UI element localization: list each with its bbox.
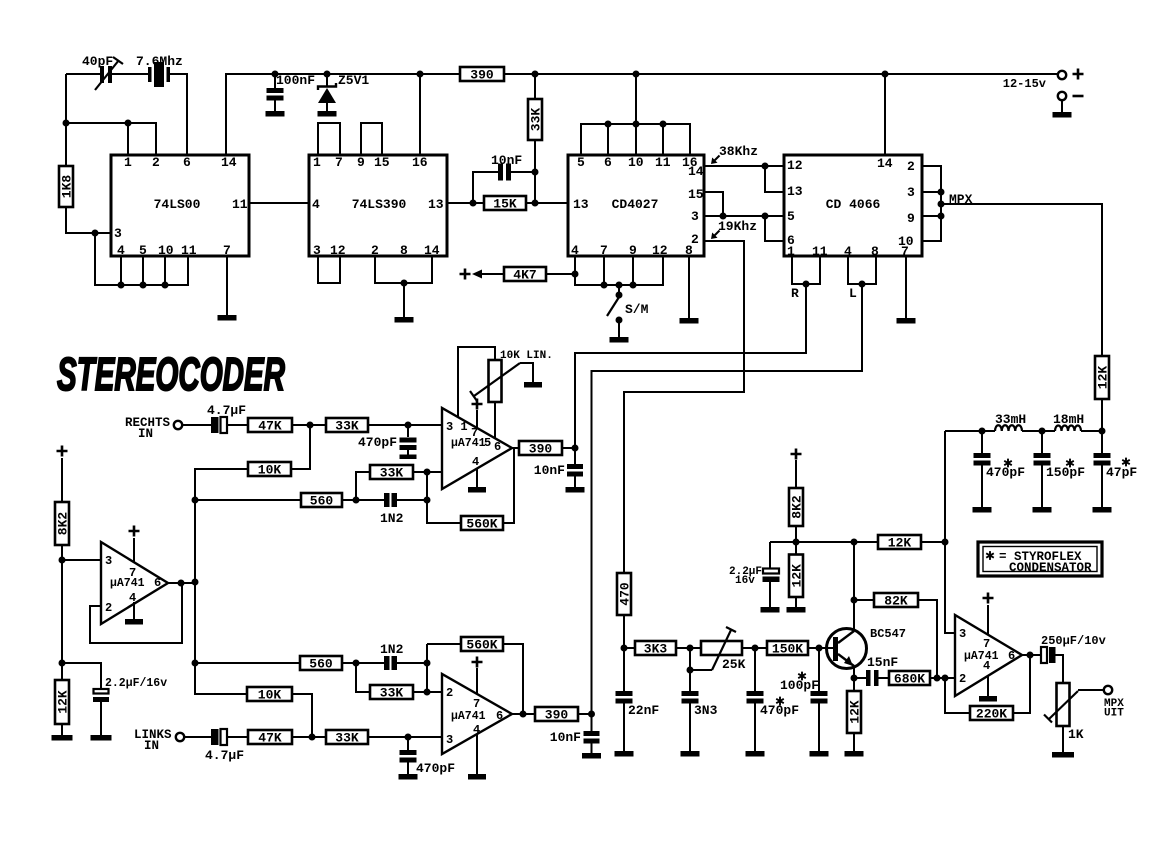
svg-text:100nF: 100nF bbox=[276, 73, 315, 88]
svg-text:16: 16 bbox=[412, 155, 428, 170]
svg-text:11: 11 bbox=[232, 197, 248, 212]
svg-text:9: 9 bbox=[907, 211, 915, 226]
svg-text:33K: 33K bbox=[380, 686, 404, 701]
svg-text:7: 7 bbox=[473, 697, 480, 711]
svg-text:2: 2 bbox=[691, 232, 699, 247]
svg-text:15: 15 bbox=[374, 155, 390, 170]
svg-text:33K: 33K bbox=[380, 466, 404, 481]
svg-text:7: 7 bbox=[600, 243, 608, 258]
svg-text:33K: 33K bbox=[335, 419, 359, 434]
svg-text:12: 12 bbox=[652, 243, 668, 258]
svg-text:11: 11 bbox=[655, 155, 671, 170]
svg-text:12: 12 bbox=[787, 158, 803, 173]
svg-text:R: R bbox=[791, 286, 799, 301]
svg-text:13: 13 bbox=[573, 197, 589, 212]
svg-text:13: 13 bbox=[787, 184, 803, 199]
svg-text:680K: 680K bbox=[894, 672, 925, 687]
svg-text:3K3: 3K3 bbox=[644, 642, 668, 657]
svg-text:3: 3 bbox=[105, 554, 112, 568]
svg-text:µA741: µA741 bbox=[110, 577, 145, 590]
svg-text:10: 10 bbox=[158, 243, 174, 258]
svg-text:22nF: 22nF bbox=[628, 703, 659, 718]
svg-text:390: 390 bbox=[545, 708, 569, 723]
svg-text:33mH: 33mH bbox=[995, 412, 1026, 427]
svg-text:14: 14 bbox=[424, 243, 440, 258]
svg-text:8: 8 bbox=[400, 243, 408, 258]
svg-text:5: 5 bbox=[577, 155, 585, 170]
svg-text:µA741: µA741 bbox=[964, 650, 999, 663]
svg-text:13: 13 bbox=[428, 197, 444, 212]
svg-text:4: 4 bbox=[117, 243, 125, 258]
svg-text:10nF: 10nF bbox=[491, 153, 522, 168]
svg-text:10K: 10K bbox=[258, 463, 282, 478]
svg-text:390: 390 bbox=[529, 442, 553, 457]
svg-text:IN: IN bbox=[138, 427, 153, 441]
svg-text:1K: 1K bbox=[1068, 727, 1084, 742]
svg-text:CONDENSATOR: CONDENSATOR bbox=[1009, 561, 1092, 575]
svg-text:6: 6 bbox=[183, 155, 191, 170]
svg-text:4.7µF: 4.7µF bbox=[205, 748, 244, 763]
svg-text:40pF: 40pF bbox=[82, 54, 113, 69]
svg-text:150K: 150K bbox=[772, 642, 803, 657]
svg-text:470pF: 470pF bbox=[358, 435, 397, 450]
svg-text:3: 3 bbox=[446, 733, 453, 747]
svg-text:14: 14 bbox=[688, 164, 704, 179]
svg-text:6: 6 bbox=[154, 576, 161, 590]
svg-text:8K2: 8K2 bbox=[56, 512, 71, 536]
svg-text:Z5V1: Z5V1 bbox=[338, 73, 369, 88]
svg-text:1N2: 1N2 bbox=[380, 642, 404, 657]
svg-text:18mH: 18mH bbox=[1053, 412, 1084, 427]
svg-text:560: 560 bbox=[309, 657, 333, 672]
svg-text:2: 2 bbox=[105, 601, 112, 615]
svg-text:4: 4 bbox=[312, 197, 320, 212]
svg-text:10: 10 bbox=[628, 155, 644, 170]
svg-text:BC547: BC547 bbox=[870, 627, 906, 641]
svg-text:9: 9 bbox=[629, 243, 637, 258]
svg-text:74LS00: 74LS00 bbox=[154, 197, 201, 212]
svg-text:560K: 560K bbox=[466, 638, 497, 653]
svg-text:150pF: 150pF bbox=[1046, 465, 1085, 480]
svg-text:4K7: 4K7 bbox=[513, 268, 536, 283]
svg-text:3: 3 bbox=[114, 226, 122, 241]
svg-text:3: 3 bbox=[691, 209, 699, 224]
svg-text:10K LIN.: 10K LIN. bbox=[500, 350, 553, 362]
svg-text:3N3: 3N3 bbox=[694, 703, 718, 718]
svg-text:2.2µF/16v: 2.2µF/16v bbox=[105, 677, 167, 690]
svg-text:16v: 16v bbox=[735, 575, 755, 587]
svg-text:1N2: 1N2 bbox=[380, 511, 404, 526]
svg-text:5: 5 bbox=[139, 243, 147, 258]
svg-text:47K: 47K bbox=[258, 731, 282, 746]
svg-text:14: 14 bbox=[221, 155, 237, 170]
svg-text:S/M: S/M bbox=[625, 302, 649, 317]
svg-text:470: 470 bbox=[618, 582, 633, 606]
svg-text:12K: 12K bbox=[1096, 366, 1111, 390]
svg-text:560: 560 bbox=[310, 494, 334, 509]
svg-text:4: 4 bbox=[983, 659, 990, 673]
svg-text:L: L bbox=[849, 286, 857, 301]
svg-text:12K: 12K bbox=[790, 564, 805, 588]
svg-text:IN: IN bbox=[144, 739, 159, 753]
svg-text:74LS390: 74LS390 bbox=[352, 197, 407, 212]
svg-text:100pF: 100pF bbox=[780, 678, 819, 693]
svg-text:5: 5 bbox=[787, 209, 795, 224]
svg-text:390: 390 bbox=[470, 68, 494, 83]
svg-text:STEREOCODER: STEREOCODER bbox=[57, 348, 285, 400]
svg-text:10K: 10K bbox=[258, 688, 282, 703]
svg-text:12-15v: 12-15v bbox=[1003, 77, 1046, 91]
svg-text:3: 3 bbox=[959, 627, 966, 641]
svg-text:15K: 15K bbox=[493, 197, 517, 212]
svg-text:12K: 12K bbox=[888, 536, 912, 551]
svg-text:6: 6 bbox=[494, 440, 501, 454]
svg-text:3: 3 bbox=[907, 185, 915, 200]
svg-text:1: 1 bbox=[124, 155, 132, 170]
svg-text:82K: 82K bbox=[884, 594, 908, 609]
svg-text:4.7µF: 4.7µF bbox=[207, 403, 246, 418]
svg-text:9: 9 bbox=[357, 155, 365, 170]
svg-text:220K: 220K bbox=[976, 707, 1007, 722]
svg-text:15nF: 15nF bbox=[867, 655, 898, 670]
svg-text:2: 2 bbox=[959, 672, 966, 686]
svg-text:47K: 47K bbox=[258, 419, 282, 434]
svg-text:CD4027: CD4027 bbox=[612, 197, 659, 212]
svg-text:µA741: µA741 bbox=[451, 437, 486, 450]
svg-text:12: 12 bbox=[330, 243, 346, 258]
svg-text:11: 11 bbox=[181, 243, 197, 258]
svg-text:2: 2 bbox=[371, 243, 379, 258]
svg-text:µA741: µA741 bbox=[451, 710, 486, 723]
svg-text:470pF: 470pF bbox=[416, 761, 455, 776]
svg-text:250µF/10v: 250µF/10v bbox=[1041, 634, 1106, 648]
svg-text:560K: 560K bbox=[466, 517, 497, 532]
svg-text:2: 2 bbox=[907, 159, 915, 174]
svg-text:12K: 12K bbox=[848, 700, 863, 724]
svg-text:CD 4066: CD 4066 bbox=[826, 197, 881, 212]
svg-text:7: 7 bbox=[223, 243, 231, 258]
svg-text:15: 15 bbox=[688, 187, 704, 202]
svg-text:2: 2 bbox=[446, 686, 453, 700]
svg-text:33K: 33K bbox=[335, 731, 359, 746]
svg-text:1: 1 bbox=[313, 155, 321, 170]
svg-text:7: 7 bbox=[983, 637, 990, 651]
svg-text:6: 6 bbox=[1008, 649, 1015, 663]
svg-text:10nF: 10nF bbox=[550, 730, 581, 745]
svg-text:3 1: 3 1 bbox=[446, 420, 468, 434]
svg-text:14: 14 bbox=[877, 156, 893, 171]
svg-text:2: 2 bbox=[152, 155, 160, 170]
svg-text:10nF: 10nF bbox=[534, 463, 565, 478]
svg-text:33K: 33K bbox=[529, 108, 544, 132]
svg-text:38Khz: 38Khz bbox=[719, 144, 758, 159]
svg-text:7: 7 bbox=[335, 155, 343, 170]
svg-text:1K8: 1K8 bbox=[60, 175, 75, 199]
svg-text:4: 4 bbox=[472, 455, 479, 469]
svg-text:4: 4 bbox=[129, 591, 136, 605]
svg-text:6: 6 bbox=[604, 155, 612, 170]
svg-text:3: 3 bbox=[313, 243, 321, 258]
svg-text:19Khz: 19Khz bbox=[718, 219, 757, 234]
svg-text:470pF: 470pF bbox=[986, 465, 1025, 480]
svg-text:25K: 25K bbox=[722, 657, 746, 672]
svg-text:7: 7 bbox=[901, 244, 909, 259]
svg-text:UIT: UIT bbox=[1104, 708, 1124, 720]
svg-text:6: 6 bbox=[496, 709, 503, 723]
svg-text:4: 4 bbox=[571, 243, 579, 258]
svg-text:12K: 12K bbox=[56, 690, 71, 714]
svg-text:47pF: 47pF bbox=[1106, 465, 1137, 480]
svg-text:7: 7 bbox=[129, 566, 136, 580]
svg-text:8K2: 8K2 bbox=[790, 495, 805, 519]
svg-text:7.6Mhz: 7.6Mhz bbox=[136, 54, 183, 69]
svg-text:MPX: MPX bbox=[949, 192, 973, 207]
